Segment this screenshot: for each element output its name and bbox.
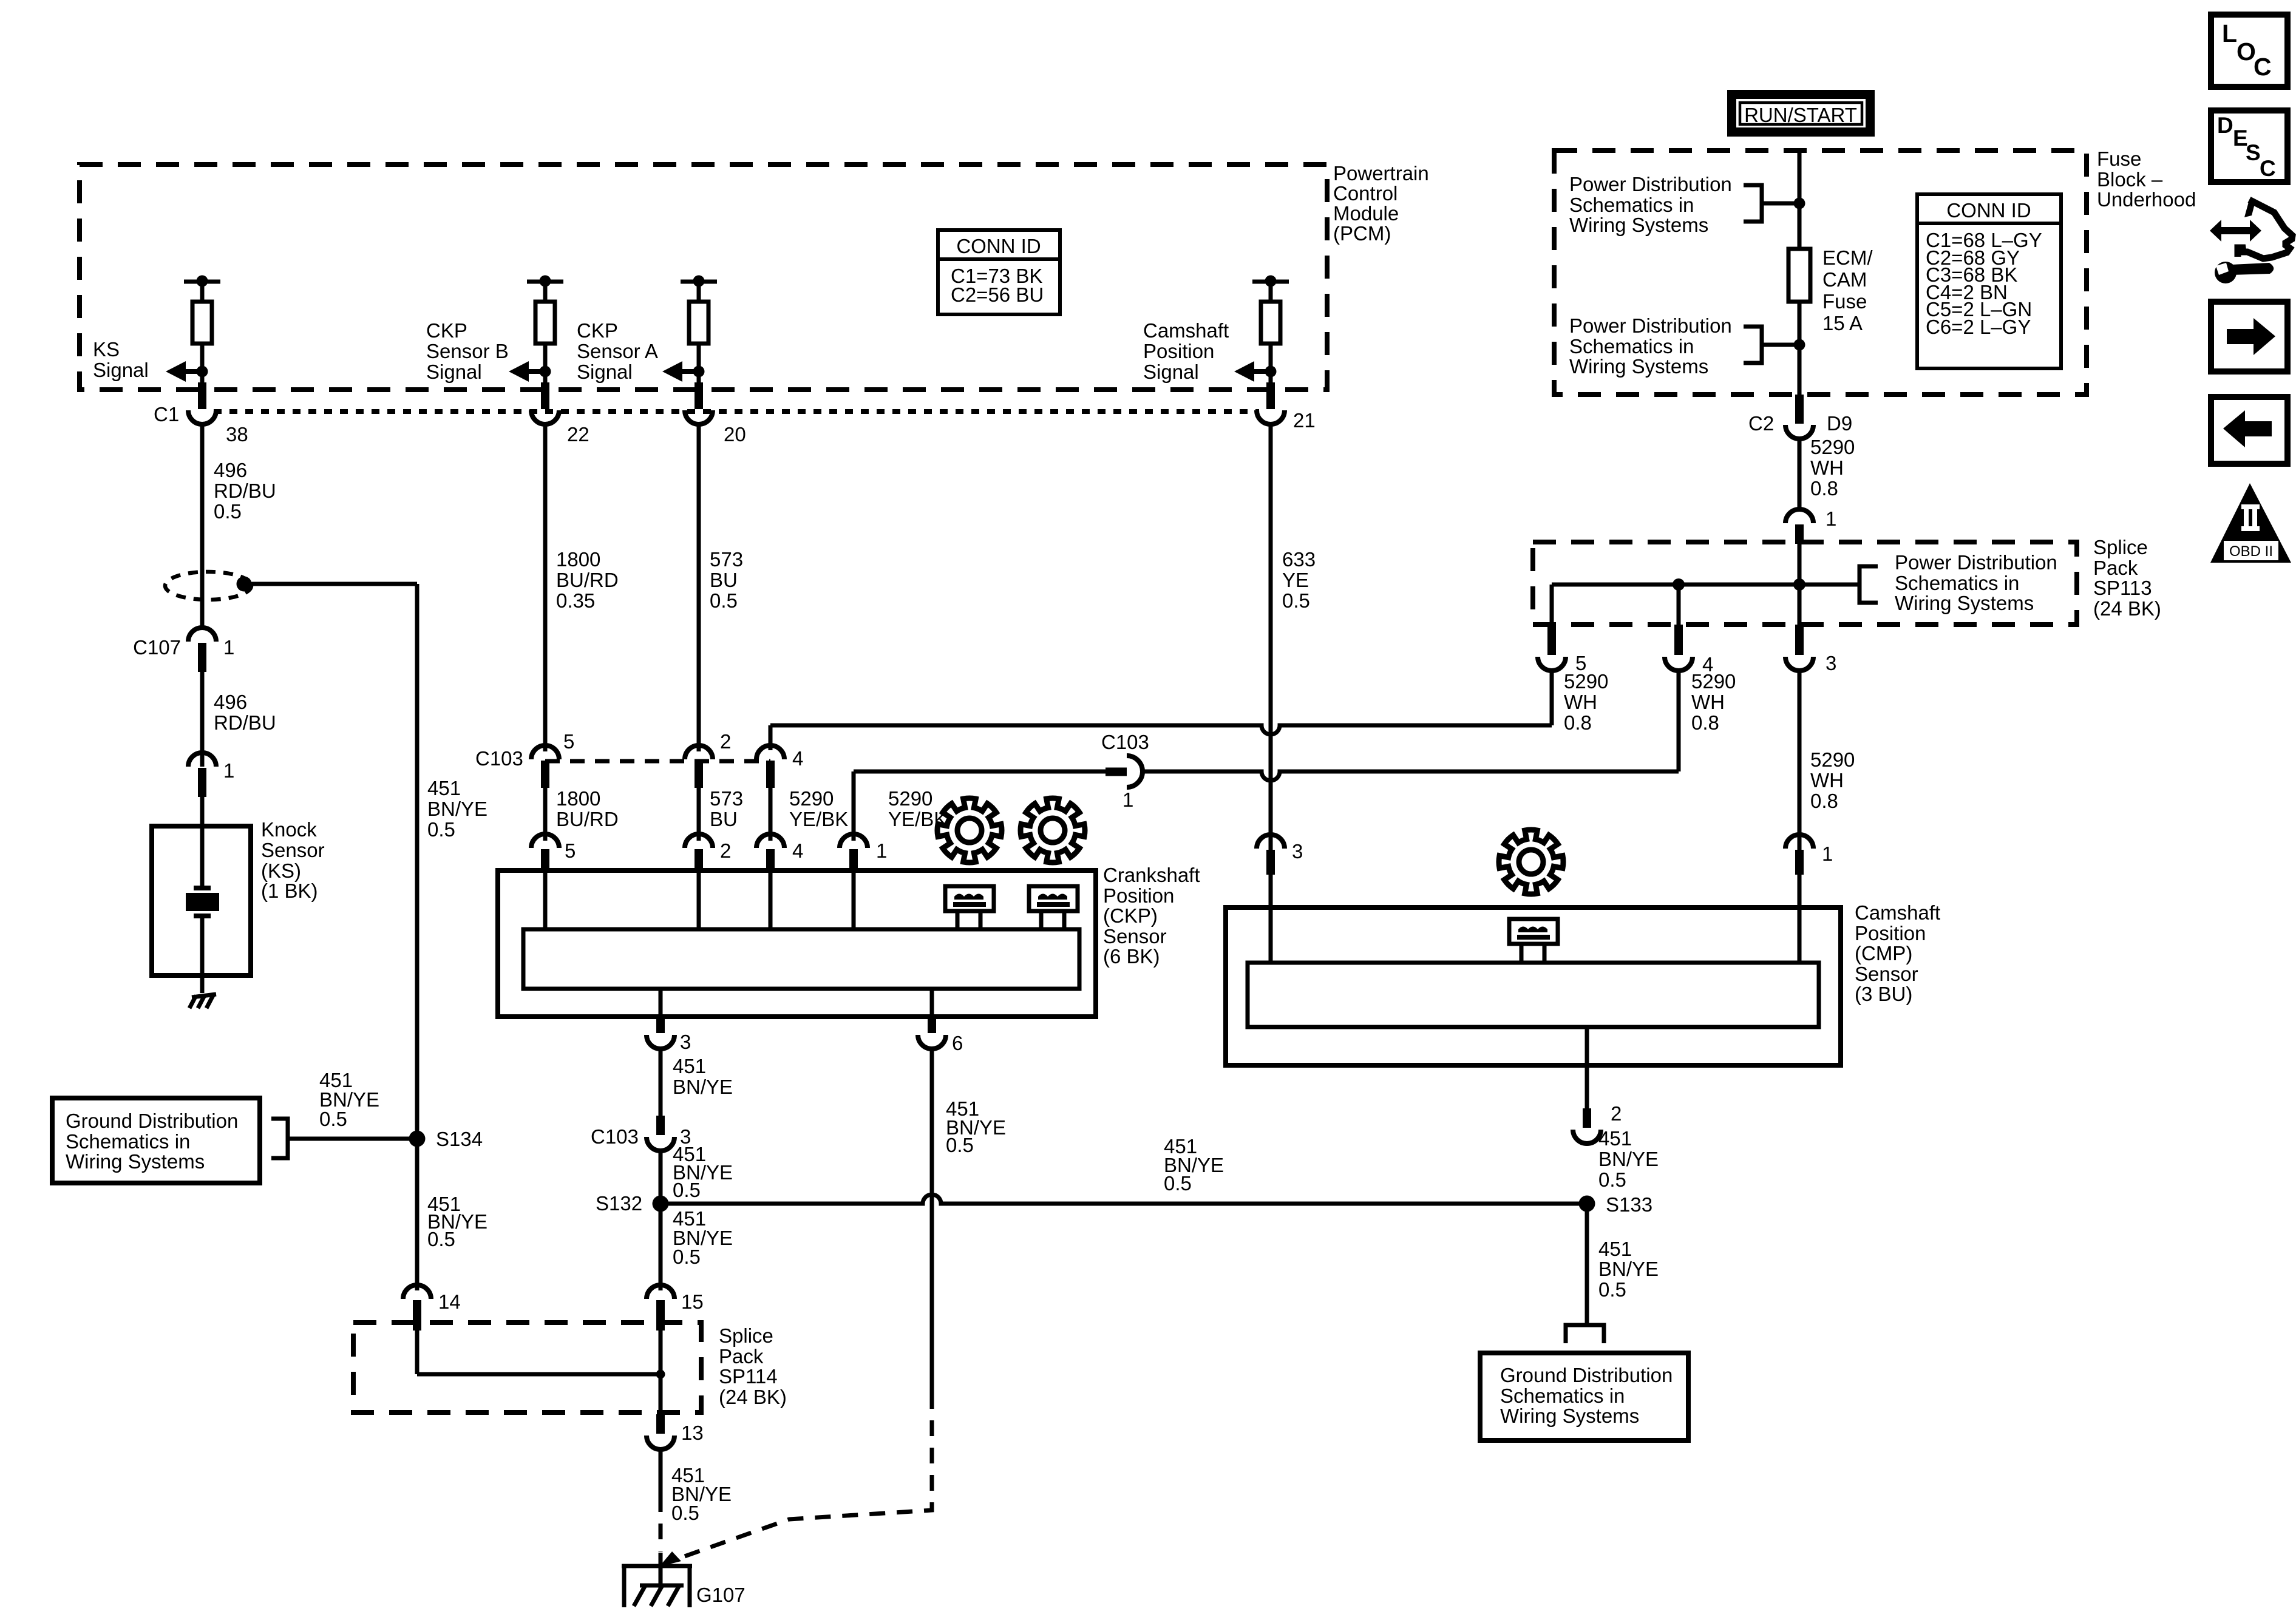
svg-text:0.5: 0.5 bbox=[1282, 589, 1310, 612]
wire SP114 bus bbox=[417, 1331, 661, 1414]
label Splice Pack SP113 (24 BK) bbox=[2093, 536, 2161, 620]
connector C1 dotted line bbox=[214, 409, 1259, 414]
label Power Distribution Schematics in Wiring Systems (SP113) bbox=[1895, 551, 2057, 614]
svg-text:CKP: CKP bbox=[426, 319, 467, 342]
wire 451 BN/YE from CKP pin 3 down bbox=[659, 1049, 663, 1117]
svg-text:CKP: CKP bbox=[577, 319, 618, 342]
wire C103-2 to CKP pin 2 bbox=[697, 788, 701, 841]
svg-text:(3 BU): (3 BU) bbox=[1855, 983, 1912, 1005]
svg-text:1: 1 bbox=[1822, 842, 1833, 865]
bracket to power distribution (lower) bbox=[1744, 327, 1805, 363]
wire CKP pin 6 down 451 BN/YE bbox=[930, 1049, 934, 1393]
svg-text:0.5: 0.5 bbox=[1598, 1168, 1626, 1191]
node junction + arrow CKP Sensor B Signal bbox=[509, 361, 551, 382]
svg-text:0.5: 0.5 bbox=[1164, 1172, 1192, 1195]
svg-text:Pack: Pack bbox=[2093, 557, 2138, 579]
connector C2 pin D9 bbox=[1748, 395, 1852, 439]
node SP113 junction at pin 3 bbox=[1793, 578, 1805, 591]
connector CMP pin 2 bbox=[1573, 1102, 1622, 1144]
svg-text:0.5: 0.5 bbox=[671, 1502, 699, 1524]
svg-text:0.5: 0.5 bbox=[427, 818, 455, 841]
svg-text:OBD II: OBD II bbox=[2229, 543, 2273, 560]
label ECM/CAM Fuse 15 A bbox=[1822, 246, 1873, 334]
ground G107 bbox=[622, 1565, 746, 1607]
svg-text:C2=56 BU: C2=56 BU bbox=[951, 283, 1044, 306]
svg-text:573: 573 bbox=[710, 548, 743, 571]
svg-text:1: 1 bbox=[223, 759, 234, 782]
node SP114 junction bbox=[656, 1370, 665, 1379]
svg-text:BN/YE: BN/YE bbox=[427, 798, 487, 820]
CMP sensor element bbox=[1509, 919, 1558, 963]
wire SP113 bus bbox=[1552, 544, 1860, 625]
label 1800 BU/RD 0.35 bbox=[556, 548, 619, 612]
Ground Distribution box (right) bbox=[1480, 1353, 1688, 1440]
wire line A (5290 WH to C103 pin 4) with hop over wire 21 bbox=[770, 725, 1552, 750]
svg-text:Power Distribution: Power Distribution bbox=[1569, 173, 1732, 195]
svg-text:5290: 5290 bbox=[888, 787, 932, 810]
svg-text:Camshaft: Camshaft bbox=[1855, 901, 1940, 924]
icon arrow right box bbox=[2211, 302, 2288, 371]
label 573 BU (lower) bbox=[710, 787, 743, 830]
svg-text:451: 451 bbox=[1598, 1127, 1632, 1150]
svg-text:Wiring Systems: Wiring Systems bbox=[1569, 214, 1708, 236]
CONN ID table (PCM) bbox=[938, 230, 1060, 314]
svg-text:C103: C103 bbox=[1101, 731, 1149, 753]
label KS Signal bbox=[93, 338, 149, 381]
svg-text:2: 2 bbox=[720, 839, 731, 862]
svg-text:451: 451 bbox=[1598, 1238, 1632, 1260]
connector CMP pin 1 bbox=[1785, 835, 1833, 875]
svg-text:Schematics in: Schematics in bbox=[1569, 194, 1694, 216]
knock sensor piezo element bbox=[186, 886, 219, 993]
label 451 BN/YE 0.5 (pin 6) bbox=[946, 1097, 1006, 1156]
svg-text:1: 1 bbox=[1826, 507, 1836, 530]
svg-text:(24 BK): (24 BK) bbox=[719, 1386, 787, 1408]
label 5290 YE/BK (pin 4) bbox=[789, 787, 848, 830]
icon arrow left box bbox=[2211, 397, 2288, 464]
svg-text:2: 2 bbox=[1611, 1102, 1622, 1125]
svg-text:BU/RD: BU/RD bbox=[556, 808, 619, 830]
wire fuse to C2 bbox=[1798, 345, 1802, 395]
wire into knock sensor bbox=[200, 797, 205, 887]
svg-text:G107: G107 bbox=[696, 1584, 746, 1606]
shield symbol (dashed ellipse) bbox=[165, 572, 252, 600]
wire 20 CKP sensor A 573 BU bbox=[697, 425, 701, 751]
svg-text:0.8: 0.8 bbox=[1564, 711, 1592, 734]
gear icon 1 (CKP) bbox=[937, 798, 1002, 863]
Camshaft Position (CMP) Sensor box bbox=[1226, 872, 1841, 1065]
svg-text:20: 20 bbox=[724, 423, 746, 446]
label 451 BN/YE (pin 3) bbox=[673, 1055, 733, 1098]
label CKP Sensor B Signal bbox=[426, 319, 509, 383]
svg-text:Power Distribution: Power Distribution bbox=[1569, 314, 1732, 337]
label 451 BN/YE 0.5 (drain upper) bbox=[427, 777, 487, 841]
connector SP114 pin 15 bbox=[647, 1285, 704, 1331]
svg-text:BN/YE: BN/YE bbox=[1598, 1258, 1659, 1280]
connector C1 pin 38 bbox=[188, 382, 248, 446]
wire SP113 pin 3 down to CMP pin 1 bbox=[1798, 671, 1802, 851]
svg-text:2: 2 bbox=[720, 730, 731, 753]
label 496 RD/BU 0.5 bbox=[214, 459, 276, 523]
svg-text:Fuse: Fuse bbox=[1822, 290, 1867, 313]
svg-text:Underhood: Underhood bbox=[2097, 188, 2196, 211]
svg-text:BN/YE: BN/YE bbox=[1598, 1148, 1659, 1170]
label C103 bbox=[475, 747, 523, 770]
label Power Distribution Schematics in Wiring Systems (upper) bbox=[1569, 173, 1732, 236]
svg-text:C1: C1 bbox=[154, 403, 179, 425]
label 5290 WH 0.8 (pin 4) bbox=[1691, 670, 1736, 734]
svg-text:SP113: SP113 bbox=[2093, 577, 2152, 599]
Fuse Block - Underhood dashed box bbox=[1554, 151, 2087, 395]
svg-text:C2: C2 bbox=[1748, 412, 1774, 435]
connector C107 pin 1 bbox=[133, 628, 234, 672]
label Camshaft Position Signal bbox=[1143, 319, 1229, 383]
svg-text:SP114: SP114 bbox=[719, 1365, 778, 1388]
svg-text:451: 451 bbox=[673, 1055, 706, 1077]
svg-text:Signal: Signal bbox=[426, 361, 482, 383]
svg-text:1: 1 bbox=[1123, 788, 1133, 811]
svg-text:BU/RD: BU/RD bbox=[556, 569, 619, 591]
wire CKP pin 3 drop bbox=[659, 989, 663, 1017]
label 5290 WH 0.8 (pin 3) bbox=[1810, 748, 1855, 812]
label Fuse Block - Underhood bbox=[2097, 147, 2196, 211]
svg-text:Power Distribution: Power Distribution bbox=[1895, 551, 2057, 574]
wire CKP pin 6 drop bbox=[930, 989, 934, 1017]
Ground Distribution box (left) bbox=[52, 1098, 260, 1183]
svg-text:Wiring Systems: Wiring Systems bbox=[1500, 1405, 1639, 1427]
svg-text:YE: YE bbox=[1282, 569, 1309, 591]
label 451 BN/YE 0.5 (S134 lower) bbox=[427, 1193, 487, 1250]
CKP sensor element 1 bbox=[945, 886, 994, 929]
svg-text:Module: Module bbox=[1333, 202, 1399, 225]
svg-text:RD/BU: RD/BU bbox=[214, 711, 276, 734]
svg-text:WH: WH bbox=[1691, 691, 1725, 713]
wire line B (5290 YE/BK through C103-1) with hop over wire 21 bbox=[854, 771, 1679, 841]
label Knock Sensor (KS) (1 BK) bbox=[261, 818, 325, 902]
label CKP Sensor A Signal bbox=[577, 319, 658, 383]
wire S132 down to SP114 pin 15 bbox=[659, 1204, 663, 1290]
svg-text:15: 15 bbox=[681, 1290, 704, 1313]
svg-text:6: 6 bbox=[952, 1032, 963, 1054]
connector CMP pin 3 bbox=[1257, 835, 1303, 875]
resistor R-CMP inside PCM bbox=[1252, 276, 1289, 383]
svg-text:451: 451 bbox=[427, 777, 461, 799]
connector SP113 pin 3 bbox=[1785, 625, 1836, 674]
svg-text:WH: WH bbox=[1564, 691, 1597, 713]
connector SP114 pin 14 bbox=[403, 1285, 461, 1331]
wire shield drain to S134 column bbox=[244, 584, 417, 1139]
resistor R-CKPB inside PCM bbox=[527, 276, 563, 383]
wire 21 camshaft position signal 633 YE bbox=[1269, 425, 1273, 851]
fork terminal to ground distribution box bbox=[1566, 1325, 1604, 1343]
label 451 BN/YE 0.5 (below S133) bbox=[1598, 1238, 1659, 1301]
svg-text:(PCM): (PCM) bbox=[1333, 222, 1391, 245]
label 451 BN/YE 0.5 (S134 horizontal) bbox=[319, 1069, 379, 1130]
wire CMP pin 2 drop bbox=[1585, 1027, 1589, 1108]
svg-text:0.8: 0.8 bbox=[1810, 477, 1838, 500]
svg-text:Position: Position bbox=[1103, 884, 1174, 907]
svg-text:38: 38 bbox=[226, 423, 248, 446]
label 451 BN/YE 0.5 (S132-S133 wire) bbox=[1164, 1135, 1224, 1195]
bracket to power distribution (upper) bbox=[1744, 185, 1805, 222]
bracket ground distribution left bbox=[271, 1119, 417, 1158]
svg-text:Control: Control bbox=[1333, 182, 1398, 205]
svg-text:S134: S134 bbox=[436, 1128, 483, 1150]
svg-text:C103: C103 bbox=[475, 747, 523, 770]
svg-text:(CMP): (CMP) bbox=[1855, 942, 1912, 964]
svg-text:Wiring Systems: Wiring Systems bbox=[66, 1150, 205, 1173]
svg-text:KS: KS bbox=[93, 338, 120, 361]
wire 5290 WH 0.8 (D9 to SP113) bbox=[1798, 439, 1802, 509]
svg-text:496: 496 bbox=[214, 459, 247, 481]
svg-text:5: 5 bbox=[565, 839, 576, 862]
connector SP114 pin 13 bbox=[647, 1414, 704, 1449]
RUN/START box bbox=[1732, 95, 1870, 132]
svg-text:0.8: 0.8 bbox=[1810, 790, 1838, 812]
connector SP113 pin 1 bbox=[1785, 507, 1836, 544]
wire S132 to S133 with hop over CKP pin 6 wire bbox=[661, 1195, 1587, 1204]
svg-text:Splice: Splice bbox=[2093, 536, 2148, 558]
icon wrench and arrows bbox=[2210, 200, 2292, 283]
wire S134 down to SP114 pin 14 bbox=[415, 1139, 419, 1290]
node S134 bbox=[409, 1128, 483, 1150]
svg-text:C107: C107 bbox=[133, 636, 181, 659]
connector C1 pin 22 bbox=[531, 382, 589, 446]
ground (knock sensor case) bbox=[189, 994, 216, 1008]
svg-text:Ground Distribution: Ground Distribution bbox=[66, 1110, 238, 1132]
svg-text:Wiring Systems: Wiring Systems bbox=[1895, 592, 2034, 614]
CONN ID table (fuse block) bbox=[1917, 194, 2061, 368]
label 1800 BU/RD (lower) bbox=[556, 787, 619, 830]
svg-text:Pack: Pack bbox=[719, 1345, 764, 1368]
connector C103 pin 4 bbox=[756, 745, 803, 788]
gear icon 2 (CKP) bbox=[1021, 798, 1085, 863]
wire S133 down to ground distribution bbox=[1585, 1204, 1589, 1323]
svg-text:D: D bbox=[2217, 113, 2233, 138]
label 451 BN/YE 0.5 (below S132) bbox=[673, 1207, 733, 1268]
label 5290 YE/BK (pin 1) bbox=[888, 787, 947, 830]
connector SP113 pin 5 bbox=[1538, 625, 1586, 674]
svg-text:Sensor B: Sensor B bbox=[426, 340, 509, 362]
Splice Pack SP114 dashed box bbox=[353, 1323, 701, 1412]
wire fuse feed bbox=[1798, 203, 1802, 249]
svg-text:BU: BU bbox=[710, 808, 738, 830]
label 451 BN/YE 0.5 (above S133) bbox=[1598, 1127, 1659, 1191]
svg-text:1: 1 bbox=[223, 636, 234, 659]
connector KS pin 1 bbox=[188, 753, 234, 797]
svg-text:5290: 5290 bbox=[1564, 670, 1608, 693]
svg-text:Camshaft: Camshaft bbox=[1143, 319, 1229, 342]
node junction + arrow KS Signal bbox=[166, 361, 208, 382]
svg-text:Signal: Signal bbox=[1143, 361, 1199, 383]
label 633 YE 0.5 bbox=[1282, 548, 1316, 612]
svg-text:C: C bbox=[2254, 53, 2272, 81]
connector C1 pin 21 bbox=[1257, 382, 1316, 432]
svg-text:Sensor: Sensor bbox=[1855, 963, 1918, 985]
svg-text:Sensor A: Sensor A bbox=[577, 340, 658, 362]
label Powertrain Control Module (PCM) bbox=[1333, 162, 1429, 245]
label Camshaft Position (CMP) Sensor (3 BU) bbox=[1855, 901, 1940, 1005]
wire 496 RD/BU lower bbox=[200, 672, 205, 767]
svg-text:0.8: 0.8 bbox=[1691, 711, 1719, 734]
svg-text:Sensor: Sensor bbox=[1103, 925, 1167, 947]
svg-text:S132: S132 bbox=[596, 1192, 642, 1215]
connector CKP pin 5 bbox=[531, 834, 576, 872]
Powertrain Control Module (PCM) dashed box bbox=[80, 164, 1327, 390]
connector C103 dashed line bbox=[545, 759, 770, 764]
svg-text:BU: BU bbox=[710, 569, 738, 591]
svg-text:CAM: CAM bbox=[1822, 268, 1867, 291]
svg-text:Crankshaft: Crankshaft bbox=[1103, 864, 1200, 886]
bracket to power distribution SP113 bbox=[1860, 566, 1878, 603]
label 573 BU 0.5 bbox=[710, 548, 743, 612]
connector CKP pin 4 bbox=[756, 834, 803, 872]
wire C103-3 to S132 bbox=[659, 1151, 663, 1204]
svg-text:3: 3 bbox=[1826, 652, 1836, 674]
wire C103-5 to CKP pin 5 bbox=[543, 788, 548, 841]
svg-text:ECM/: ECM/ bbox=[1822, 246, 1873, 269]
resistor R-KS inside PCM bbox=[184, 276, 220, 383]
svg-text:1800: 1800 bbox=[556, 787, 600, 810]
svg-text:(CKP): (CKP) bbox=[1103, 904, 1158, 927]
svg-text:Schematics in: Schematics in bbox=[1895, 572, 2019, 594]
svg-text:1800: 1800 bbox=[556, 548, 600, 571]
svg-text:573: 573 bbox=[710, 787, 743, 810]
wire RUN/START to fuse block bbox=[1798, 149, 1802, 203]
svg-text:15 A: 15 A bbox=[1822, 312, 1863, 334]
node SP113 junction at pin 4 bbox=[1673, 578, 1685, 591]
svg-text:0.5: 0.5 bbox=[1598, 1278, 1626, 1301]
svg-text:WH: WH bbox=[1810, 769, 1844, 792]
connector CKP pin 3 bbox=[647, 1015, 691, 1053]
svg-text:Ground Distribution: Ground Distribution bbox=[1500, 1364, 1673, 1386]
label 451 BN/YE 0.5 (pin 13) bbox=[671, 1464, 732, 1524]
svg-text:WH: WH bbox=[1810, 456, 1844, 479]
connector SP113 pin 4 bbox=[1665, 625, 1713, 676]
icon DESC box bbox=[2211, 110, 2288, 182]
fuse ECM/CAM 15A bbox=[1788, 249, 1810, 346]
wire CKP pin 6 dashed to G107 bbox=[659, 1393, 932, 1567]
svg-text:Wiring Systems: Wiring Systems bbox=[1569, 355, 1708, 378]
svg-text:BN/YE: BN/YE bbox=[673, 1076, 733, 1098]
label Splice Pack SP114 (24 BK) bbox=[719, 1324, 787, 1408]
connector CKP pin 1 bbox=[840, 834, 887, 872]
label Power Distribution Schematics in Wiring Systems (lower) bbox=[1569, 314, 1732, 378]
svg-text:Schematics in: Schematics in bbox=[66, 1130, 190, 1153]
resistor R-CKPA inside PCM bbox=[681, 276, 717, 383]
svg-text:Schematics in: Schematics in bbox=[1500, 1385, 1625, 1407]
svg-text:Powertrain: Powertrain bbox=[1333, 162, 1429, 185]
svg-text:0.5: 0.5 bbox=[673, 1179, 701, 1201]
connector C103 pin 1 inline bbox=[1101, 731, 1149, 811]
svg-text:496: 496 bbox=[214, 691, 247, 713]
svg-text:0.5: 0.5 bbox=[214, 500, 242, 523]
svg-text:RD/BU: RD/BU bbox=[214, 480, 276, 502]
svg-text:3: 3 bbox=[1292, 840, 1303, 863]
svg-text:(6 BK): (6 BK) bbox=[1103, 945, 1160, 968]
node S132 bbox=[596, 1192, 669, 1215]
svg-text:4: 4 bbox=[792, 747, 803, 770]
svg-text:0.5: 0.5 bbox=[946, 1134, 974, 1156]
svg-text:Block –: Block – bbox=[2097, 168, 2163, 191]
svg-text:14: 14 bbox=[438, 1290, 461, 1313]
label C1 bbox=[154, 403, 179, 425]
svg-text:C6=2 L–GY: C6=2 L–GY bbox=[1926, 316, 2031, 338]
svg-text:C: C bbox=[2260, 156, 2276, 181]
svg-text:C103: C103 bbox=[591, 1125, 639, 1148]
wire SP113 pin 5 to line A bbox=[1550, 671, 1554, 725]
connector CKP pin 2 bbox=[685, 834, 731, 872]
svg-text:Position: Position bbox=[1855, 922, 1926, 944]
svg-text:Sensor: Sensor bbox=[261, 839, 325, 861]
node S133 bbox=[1579, 1193, 1653, 1216]
svg-text:Position: Position bbox=[1143, 340, 1214, 362]
wire SP113 pin 4 to line B bbox=[1677, 671, 1681, 771]
svg-text:13: 13 bbox=[681, 1422, 704, 1444]
svg-text:D9: D9 bbox=[1827, 412, 1852, 435]
svg-text:0.5: 0.5 bbox=[673, 1246, 701, 1268]
svg-text:21: 21 bbox=[1293, 409, 1316, 432]
svg-text:L: L bbox=[2222, 19, 2237, 47]
connector C103 pin 5 bbox=[531, 730, 574, 788]
node junction + arrow Camshaft Position Signal bbox=[1234, 361, 1277, 382]
svg-text:5290: 5290 bbox=[1810, 436, 1855, 458]
svg-text:S133: S133 bbox=[1606, 1193, 1652, 1216]
connector C103 pin 2 bbox=[685, 730, 731, 788]
node junction + arrow CKP Sensor A Signal bbox=[662, 361, 705, 382]
svg-text:Signal: Signal bbox=[93, 359, 149, 381]
svg-text:Fuse: Fuse bbox=[2097, 147, 2141, 170]
label 5290 WH 0.8 (top) bbox=[1810, 436, 1855, 500]
svg-text:RUN/START: RUN/START bbox=[1744, 104, 1857, 126]
svg-text:Splice: Splice bbox=[719, 1324, 773, 1347]
label Crankshaft Position (CKP) Sensor (6 BK) bbox=[1103, 864, 1200, 968]
svg-text:YE/BK: YE/BK bbox=[789, 808, 848, 830]
svg-text:CONN ID: CONN ID bbox=[956, 235, 1041, 257]
connector CKP pin 6 bbox=[918, 1015, 963, 1054]
svg-text:0.5: 0.5 bbox=[710, 589, 738, 612]
wire KS 496 RD/BU upper bbox=[200, 424, 205, 629]
svg-text:5290: 5290 bbox=[1810, 748, 1855, 771]
icon OBD II triangle bbox=[2210, 483, 2291, 563]
connector C103 pin 3 bbox=[591, 1116, 691, 1151]
Knock Sensor (KS) box bbox=[152, 826, 251, 975]
label 496 RD/BU bbox=[214, 691, 276, 734]
svg-text:0.5: 0.5 bbox=[319, 1108, 347, 1130]
svg-text:(1 BK): (1 BK) bbox=[261, 880, 318, 902]
svg-text:5: 5 bbox=[563, 730, 574, 753]
svg-text:22: 22 bbox=[567, 423, 589, 446]
svg-text:CONN ID: CONN ID bbox=[1946, 199, 2031, 222]
svg-text:4: 4 bbox=[792, 839, 803, 862]
svg-text:(KS): (KS) bbox=[261, 859, 301, 882]
wire 451 BN/YE below pin 13 bbox=[659, 1449, 663, 1551]
svg-text:0.35: 0.35 bbox=[556, 589, 595, 612]
svg-text:Schematics in: Schematics in bbox=[1569, 335, 1694, 358]
Crankshaft Position (CKP) Sensor box bbox=[498, 870, 1096, 1017]
svg-text:(24 BK): (24 BK) bbox=[2093, 597, 2161, 620]
wire 451 into ground bbox=[659, 1553, 663, 1588]
svg-text:Signal: Signal bbox=[577, 361, 633, 383]
svg-text:1: 1 bbox=[876, 839, 887, 862]
CKP sensor element 2 bbox=[1029, 886, 1078, 929]
icon LOC box bbox=[2211, 15, 2288, 87]
svg-text:3: 3 bbox=[680, 1031, 691, 1053]
Splice Pack SP113 dashed box bbox=[1533, 542, 2077, 625]
wire C103-4 to CKP pin 4 bbox=[769, 788, 773, 841]
svg-text:S: S bbox=[2246, 140, 2261, 165]
label 5290 WH 0.8 (pin 5) bbox=[1564, 670, 1608, 734]
